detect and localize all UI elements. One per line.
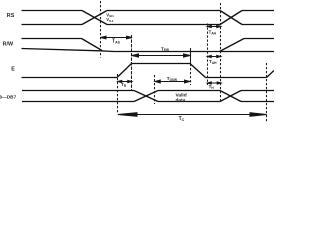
node RS rail low mid: [107, 24, 220, 26]
svg-text:TR: TR: [121, 82, 127, 88]
wire arrow TDSW data setup: [155, 81, 189, 83]
wire arrow TAH upper: [208, 26, 221, 28]
node RW rail high left: [22, 38, 82, 40]
wire E falling edge: [190, 64, 206, 78]
wire reference dashed line L1 at RS change: [100, 1, 102, 58]
wire DB crossover 2 rising: [220, 91, 241, 102]
wire arrow TH data hold: [208, 82, 222, 84]
svg-text:VIL1: VIL1: [106, 17, 113, 23]
node RW rail high right: [244, 38, 274, 40]
node DB rail top valid: [158, 90, 220, 92]
svg-text:RS: RS: [7, 13, 15, 19]
svg-text:E: E: [11, 67, 15, 73]
wire DB crossover 1 falling: [134, 91, 158, 102]
svg-text:0—DB7: 0—DB7: [0, 95, 17, 100]
wire RW rising edge right: [220, 39, 245, 52]
svg-text:data: data: [176, 97, 186, 103]
wire DB crossover 1 rising: [134, 91, 158, 102]
svg-text:TAH: TAH: [209, 30, 217, 36]
wire arrow TC cycle time: [118, 114, 267, 116]
node DB rail bottom right: [241, 101, 274, 103]
wire RS crossover 1 rising: [82, 11, 107, 25]
node RS rail high left: [22, 10, 83, 12]
wire RW falling edge: [82, 39, 103, 51]
node DB rail bottom valid: [158, 101, 220, 103]
svg-text:R/W: R/W: [3, 42, 14, 48]
node E rail low right: [206, 77, 267, 79]
wire arrow TAS: [101, 37, 132, 39]
node DB rail bottom left: [22, 101, 134, 103]
wire RS crossover 1 falling: [82, 11, 107, 25]
wire RS crossover 2 rising: [220, 11, 242, 25]
wire arrow TEH pulse width: [132, 55, 190, 57]
wire reference dashed line L2 at E rise start: [117, 74, 119, 114]
node E rail high: [132, 63, 191, 65]
wire arrow TAH lower: [208, 56, 221, 58]
wire E next rising edge: [267, 71, 275, 78]
node RS rail high mid: [107, 10, 220, 12]
node RS rail low right: [242, 24, 274, 26]
wire reference line L4 at E fall start: [190, 48, 192, 64]
node DB rail top left: [22, 90, 134, 92]
wire reference dashed line L7 at data valid: [154, 75, 156, 104]
wire reference dashed line L5 at E fall end: [207, 24, 209, 86]
node DB rail top right: [241, 90, 274, 92]
wire arrow Tr rise time: [118, 81, 132, 83]
node RS rail high right: [242, 10, 274, 12]
svg-text:TH: TH: [209, 84, 215, 90]
svg-text:TDSW: TDSW: [167, 76, 177, 82]
svg-text:TAH: TAH: [209, 59, 217, 65]
node RW rail low: [22, 49, 275, 52]
wire reference dashed line L3 at E rise end: [131, 35, 133, 90]
node E rail low left: [22, 77, 118, 79]
wire DB crossover 2 falling: [220, 91, 241, 102]
wire reference dashed line L8 at next E rise: [266, 63, 268, 123]
node RS rail low left: [22, 24, 83, 26]
wire reference dashed line L6 at address change: [220, 3, 222, 102]
svg-text:TEW: TEW: [161, 46, 169, 52]
wire RS crossover 2 falling: [220, 11, 242, 25]
wire E rising edge: [117, 64, 132, 78]
